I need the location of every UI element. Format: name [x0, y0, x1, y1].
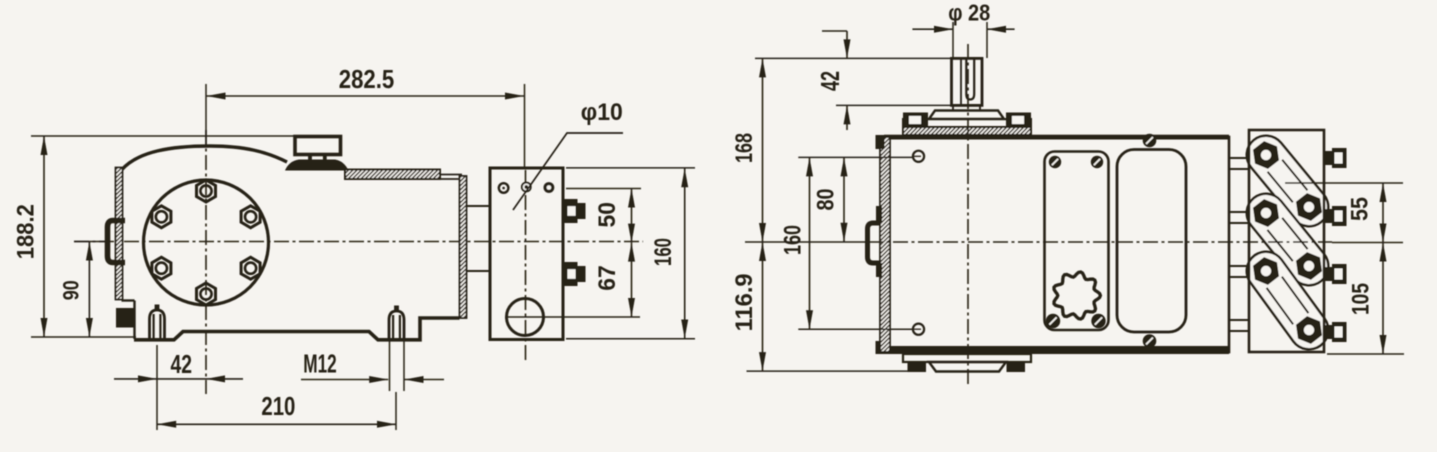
svg-text:67: 67: [594, 265, 621, 291]
pump body top arc: [122, 146, 288, 170]
plate hole middle (φ10): [521, 182, 532, 193]
rv bearing cap band: [903, 119, 1031, 127]
rv bottom-left lug: [876, 341, 885, 354]
bottom-left step: [122, 299, 135, 301]
rv cap bolt right: [1006, 113, 1031, 128]
plate hole right: [544, 182, 555, 193]
plate stud upper: [563, 199, 578, 223]
plate bottom port circle: [507, 299, 544, 336]
rv bottom tabs: [908, 363, 927, 373]
svg-text:116.9: 116.9: [731, 273, 758, 331]
svg-text:188.2: 188.2: [13, 204, 40, 259]
dim 188.2: [31, 135, 295, 137]
svg-text:50: 50: [594, 202, 621, 228]
dim 116.9: [747, 370, 908, 372]
rv top-left lug: [876, 135, 885, 149]
ext shaft top: [755, 57, 952, 59]
svg-text:80: 80: [813, 189, 840, 211]
rv body bottom thick edge: [884, 346, 1229, 354]
svg-text:282.5: 282.5: [339, 64, 395, 94]
dim 42 bottom: [156, 345, 158, 430]
stud M12 left: [150, 310, 165, 339]
dim 55: [1285, 182, 1403, 184]
extension line 282.5 right: [524, 84, 526, 168]
rv cover 1: [1045, 152, 1109, 331]
rv horizontal centerline: [745, 241, 868, 243]
svg-text:φ10: φ10: [581, 99, 623, 126]
left shaft protrusion: [108, 221, 126, 263]
flange bolt nuts x6: [197, 180, 216, 202]
left flange hatched band: [116, 168, 123, 300]
valve plate vertical centerline: [525, 170, 527, 362]
top right ledge: [440, 174, 462, 176]
extension line 282.5 left: [205, 84, 207, 146]
svg-text:42: 42: [815, 71, 845, 91]
rv cover2 screws: [1143, 134, 1157, 148]
top cover hatched band: [345, 170, 440, 180]
bottom-left clamp block: [116, 308, 134, 328]
dim 80: [798, 156, 912, 158]
svg-text:90: 90: [59, 280, 84, 300]
stud M12 right: [389, 311, 404, 339]
left view horizontal centerline: [74, 241, 643, 243]
dim 105: [1327, 353, 1404, 355]
bottom foot profile: [134, 318, 460, 340]
rv left shaft protrusion: [868, 223, 881, 263]
label φ10 leader: [513, 133, 623, 210]
rv bottom flange band: [903, 354, 1031, 362]
rv bearing cap trapezoid: [929, 111, 1004, 120]
svg-text:M12: M12: [303, 349, 337, 379]
manifold body: [1249, 130, 1324, 352]
dim 160 right view: [798, 328, 912, 330]
right body hatched band: [460, 176, 467, 318]
dim 210: [395, 392, 397, 430]
rv vertical centerline: [967, 44, 969, 386]
rv pump body: [884, 137, 1229, 352]
dim 90: [88, 242, 90, 338]
plate stud lower: [563, 262, 578, 286]
dim 160 left view: [566, 167, 695, 169]
rv body top thick edge: [884, 135, 1229, 140]
oil cap stem: [308, 155, 312, 162]
oil cap: [295, 137, 341, 155]
svg-text:168: 168: [731, 133, 758, 163]
rv dowel circle top: [913, 151, 924, 162]
neck to valve plate: [466, 205, 490, 207]
dim 50: [566, 188, 641, 190]
crankcase flange circle: [144, 180, 269, 305]
manifold hex bolts x6: [1253, 141, 1279, 169]
svg-text:160: 160: [780, 225, 807, 255]
plate hole left: [499, 183, 509, 193]
rv cover1 screws: [1049, 156, 1061, 168]
rv dowel circle bottom: [913, 324, 924, 335]
label M12: [389, 341, 391, 391]
svg-text:55: 55: [1347, 197, 1374, 221]
cap boss mound: [285, 160, 349, 171]
rv cover 2: [1117, 150, 1186, 333]
dim φ28: [912, 28, 953, 30]
valve plate body: [490, 168, 563, 340]
dim 67: [508, 316, 640, 318]
rv shaft: [952, 58, 983, 105]
rv shaft neck: [952, 104, 983, 106]
svg-text:φ 28: φ 28: [948, 0, 990, 26]
svg-text:105: 105: [1348, 283, 1375, 315]
manifold right tabs x4: [1324, 151, 1332, 165]
svg-text:42: 42: [170, 349, 192, 379]
dim 42 right view: [822, 30, 847, 32]
rv left hatched band: [880, 137, 890, 352]
dim 168: [762, 58, 764, 242]
dim 282.5: [206, 95, 525, 97]
ext shaft bottom: [836, 104, 952, 106]
flange vertical centerline: [205, 130, 207, 394]
svg-text:210: 210: [261, 391, 295, 421]
rv hand knob: [1054, 272, 1100, 319]
valve cover capsules x3: [1266, 155, 1309, 207]
rv bottom trapezoid: [929, 362, 1006, 372]
rv cap bolt left: [903, 113, 928, 128]
manifold connector stubs: [1229, 157, 1249, 159]
svg-text:160: 160: [650, 238, 677, 266]
